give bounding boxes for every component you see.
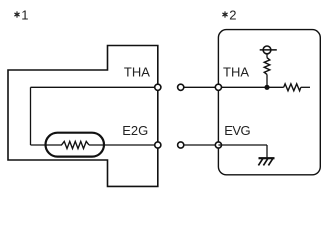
svg-text:THA: THA <box>223 65 249 80</box>
svg-text:2: 2 <box>229 8 236 23</box>
label *1 (asterisk) <box>15 12 19 17</box>
ECU box *2 outline <box>218 30 320 175</box>
wire down to ground <box>266 145 268 158</box>
wire to thermistor <box>31 144 63 146</box>
wire left vertical inside sensor <box>30 87 32 145</box>
harness terminal THA (open end) <box>178 84 184 90</box>
label *2 (asterisk) <box>223 12 227 17</box>
harness terminal EVG (open end) <box>178 142 184 148</box>
thermistor body (pill outline) <box>46 133 105 157</box>
ground symbol hatch 3 <box>268 158 273 165</box>
pull-up resistor (vertical zigzag) <box>264 58 270 75</box>
wire resistor to junction <box>266 74 268 87</box>
ground symbol bar <box>259 157 275 159</box>
svg-text:1: 1 <box>21 8 28 23</box>
terminal THA sensor side <box>155 84 161 90</box>
wire power to pull-up resistor <box>266 54 268 58</box>
wire harness THA <box>184 86 216 88</box>
svg-text:EVG: EVG <box>224 123 250 138</box>
wire THA inside ECU <box>218 86 283 88</box>
load resistor (horizontal zigzag) <box>284 84 301 91</box>
terminal EVG ECU side <box>215 142 221 148</box>
thermistor zigzag element <box>62 141 90 148</box>
svg-text:THA: THA <box>124 65 150 80</box>
terminal E2G sensor side <box>155 142 161 148</box>
junction node on THA line <box>264 85 269 90</box>
wire EVG inside ECU <box>218 144 267 146</box>
svg-text:E2G: E2G <box>122 123 148 138</box>
wire harness EVG <box>184 144 216 146</box>
wire stub after load resistor <box>301 86 310 88</box>
ground symbol hatch 1 <box>258 158 263 165</box>
ground symbol hatch 2 <box>263 158 268 165</box>
power supply symbol (circle with bar) <box>260 46 277 54</box>
connector *1 sensor housing outline <box>8 46 158 187</box>
terminal THA ECU side <box>215 84 221 90</box>
wire THA inside sensor (top run) <box>31 86 158 88</box>
wire thermistor to E2G terminal <box>89 144 158 146</box>
